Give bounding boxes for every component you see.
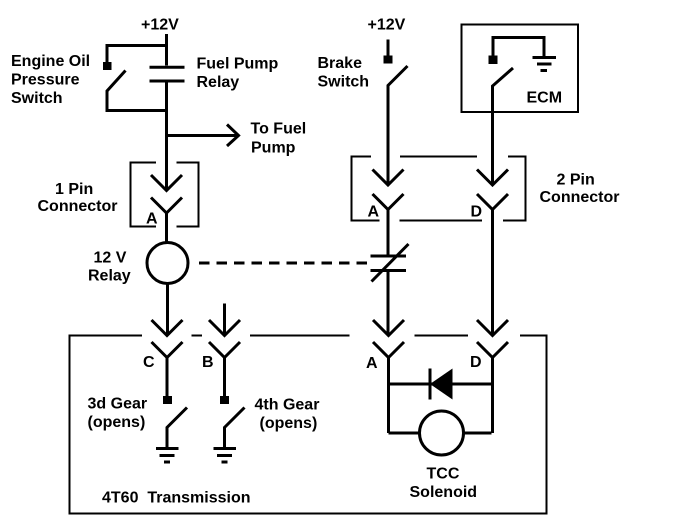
- svg-text:D: D: [470, 354, 482, 371]
- svg-text:Fuel Pump: Fuel Pump: [197, 56, 279, 73]
- svg-text:A: A: [366, 355, 378, 372]
- svg-text:+12V: +12V: [368, 17, 406, 34]
- svg-text:Pressure: Pressure: [11, 72, 80, 89]
- svg-text:Pump: Pump: [251, 140, 296, 157]
- svg-text:3d Gear: 3d Gear: [88, 396, 148, 413]
- svg-text:Relay: Relay: [88, 268, 131, 285]
- svg-text:4T60 Transmission: 4T60 Transmission: [102, 490, 251, 507]
- svg-text:2 Pin: 2 Pin: [557, 172, 595, 189]
- svg-text:4th Gear: 4th Gear: [255, 397, 320, 414]
- svg-text:+12V: +12V: [141, 17, 179, 34]
- svg-text:Switch: Switch: [11, 90, 63, 107]
- svg-text:To Fuel: To Fuel: [251, 121, 307, 138]
- svg-text:A: A: [368, 204, 380, 221]
- svg-text:Solenoid: Solenoid: [410, 484, 478, 501]
- svg-text:C: C: [143, 354, 155, 371]
- svg-text:1 Pin: 1 Pin: [55, 181, 93, 198]
- svg-text:Connector: Connector: [38, 198, 118, 215]
- svg-text:Connector: Connector: [540, 189, 620, 206]
- svg-text:Switch: Switch: [318, 74, 370, 91]
- svg-text:(opens): (opens): [260, 415, 318, 432]
- svg-text:(opens): (opens): [88, 414, 146, 431]
- svg-text:Engine Oil: Engine Oil: [11, 53, 90, 70]
- svg-text:Relay: Relay: [197, 74, 240, 91]
- svg-text:TCC: TCC: [427, 466, 460, 483]
- svg-text:Brake: Brake: [318, 55, 363, 72]
- svg-text:A: A: [146, 211, 158, 228]
- svg-text:ECM: ECM: [527, 90, 563, 107]
- svg-text:12 V: 12 V: [94, 250, 127, 267]
- svg-text:B: B: [202, 354, 214, 371]
- svg-text:D: D: [471, 204, 483, 221]
